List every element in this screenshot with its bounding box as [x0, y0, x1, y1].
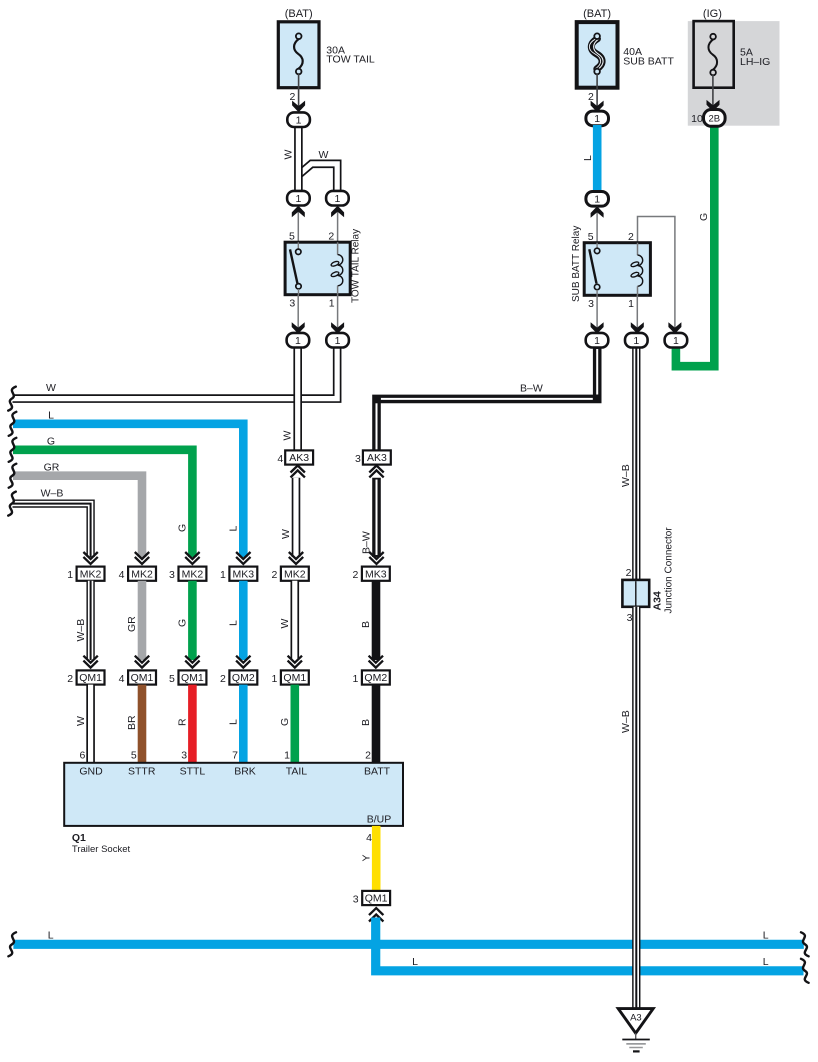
svg-text:LH–IG: LH–IG	[740, 56, 770, 68]
label L bus1 right	[763, 929, 769, 941]
svg-text:B–W: B–W	[361, 531, 373, 554]
pin 5	[588, 231, 594, 243]
label 30A TOW TAIL	[326, 44, 375, 65]
label GR	[126, 616, 138, 632]
connector 2B	[704, 110, 726, 127]
label Y	[360, 854, 372, 861]
pin 5	[289, 231, 295, 243]
connector 1 (SUB BATT relay top)	[586, 192, 609, 207]
arrow chevrons into MK2 pin4	[135, 552, 149, 564]
arrow chevrons into QM1 pin2	[83, 656, 97, 668]
connector MK2 pin2	[281, 567, 309, 581]
connector 1 (B-W out)	[586, 333, 609, 348]
pin 1	[329, 298, 335, 310]
break L bus1 left	[8, 932, 16, 956]
svg-text:L: L	[227, 526, 239, 532]
IG power panel	[688, 21, 780, 126]
svg-text:(BAT): (BAT)	[285, 8, 313, 20]
svg-text:1: 1	[673, 335, 679, 347]
pin 2	[67, 673, 73, 685]
svg-text:B/UP: B/UP	[367, 814, 392, 826]
label A34	[652, 591, 664, 610]
svg-text:W: W	[75, 716, 87, 726]
svg-text:TAIL: TAIL	[286, 766, 308, 778]
arrow chevrons into QM1 pin4	[135, 656, 149, 668]
break G	[9, 438, 17, 462]
connector QM1 pin5	[179, 670, 207, 684]
wire GR MK2 to QM1	[138, 581, 147, 660]
wire Y B/UP	[372, 826, 381, 891]
connector QM2 pin2	[229, 670, 257, 684]
svg-text:QM2: QM2	[364, 672, 387, 684]
label (IG)	[703, 8, 722, 20]
wire relay pin 2 up	[331, 206, 344, 243]
relay SUB BATT coil	[630, 243, 642, 296]
svg-text:QM2: QM2	[232, 672, 255, 684]
wire BR QM1 to STTR	[138, 685, 147, 763]
pin 2	[289, 91, 295, 103]
connector QM2 pin1	[362, 670, 390, 684]
svg-text:L: L	[228, 719, 240, 725]
connector Q1 Trailer Socket box	[64, 763, 403, 826]
svg-text:Junction Connector: Junction Connector	[664, 527, 675, 614]
label GR feeder	[44, 461, 60, 473]
svg-text:L: L	[412, 956, 418, 968]
svg-text:1: 1	[220, 569, 226, 581]
svg-text:5: 5	[588, 231, 594, 243]
break L	[9, 412, 17, 436]
wire L QM2 to BRK	[239, 685, 248, 763]
svg-text:L: L	[228, 620, 240, 626]
svg-text:QM1: QM1	[283, 672, 306, 684]
svg-text:W: W	[279, 619, 291, 629]
wire fuse TOW TAIL pin 2	[298, 74, 300, 110]
svg-text:W: W	[46, 382, 56, 394]
wire relay pin 1 down	[631, 295, 644, 334]
pin 3 Q1	[181, 749, 187, 761]
svg-text:Trailer Socket: Trailer Socket	[72, 844, 131, 855]
svg-text:1: 1	[633, 335, 639, 347]
svg-text:STTL: STTL	[180, 766, 206, 778]
relay TOW TAIL switch	[290, 242, 301, 295]
connector MK3 pin1	[229, 567, 257, 581]
arrow chevrons into MK2 pin2	[289, 552, 303, 564]
svg-text:2: 2	[271, 569, 277, 581]
label 40A SUB BATT	[623, 46, 674, 67]
wire W relay to AK3	[293, 347, 302, 455]
pin 7 Q1	[232, 749, 238, 761]
svg-text:GR: GR	[44, 461, 60, 473]
connector 1 (relay pin3 bottom)	[287, 333, 310, 348]
pin 4	[119, 673, 125, 685]
pin 2 Q1	[365, 749, 371, 761]
connector 1 (SUB BATT fuse out)	[586, 111, 609, 126]
wire W-B relay to A34	[632, 347, 640, 581]
connector 1 (relay pin5 top)	[287, 191, 310, 206]
wire relay pin 1 down	[331, 295, 344, 334]
label R	[177, 718, 189, 726]
break W-B	[8, 492, 16, 516]
label W-B	[75, 619, 87, 642]
svg-text:2: 2	[365, 749, 371, 761]
label W	[280, 529, 292, 539]
wire B MK3 to QM2	[372, 581, 381, 660]
pin 2	[588, 91, 594, 103]
connector QM1 pin2	[77, 670, 105, 684]
label BR	[126, 715, 138, 730]
svg-text:G: G	[698, 213, 710, 221]
svg-text:BRK: BRK	[234, 766, 256, 778]
svg-text:1: 1	[329, 298, 335, 310]
label W-B upper	[620, 464, 632, 487]
svg-text:1: 1	[594, 335, 600, 347]
svg-text:MK2: MK2	[80, 568, 102, 580]
svg-text:G: G	[177, 619, 189, 627]
svg-text:3: 3	[355, 453, 361, 465]
svg-text:7: 7	[232, 749, 238, 761]
break W	[8, 387, 16, 411]
svg-text:3: 3	[588, 298, 594, 310]
label W-B feeder	[41, 488, 64, 500]
connector 1 (W-B out)	[625, 333, 648, 348]
fuse 5A LH-IG	[694, 21, 734, 88]
wire W-B feeder	[13, 504, 91, 557]
pin 1	[352, 673, 358, 685]
label B/UP	[367, 814, 392, 826]
arrow chevrons into MK3 pin1	[236, 552, 250, 564]
wire relay pin 5 up	[292, 206, 305, 243]
connector AK3 pin3	[363, 450, 391, 464]
connector A34 junction	[622, 580, 649, 607]
wire G feeder	[13, 450, 192, 557]
svg-text:SUB BATT: SUB BATT	[623, 55, 674, 67]
svg-text:3: 3	[169, 569, 175, 581]
wire W MK2 to QM1	[290, 581, 299, 660]
svg-text:B–W: B–W	[520, 383, 543, 395]
label L bus2	[412, 956, 418, 968]
connector 1 (TOW TAIL fuse out)	[287, 112, 310, 127]
pin 1	[628, 298, 634, 310]
svg-text:3: 3	[627, 612, 633, 624]
svg-text:L: L	[582, 155, 594, 161]
svg-text:QM1: QM1	[131, 672, 154, 684]
svg-text:1: 1	[594, 113, 600, 125]
arrow into 2B	[707, 100, 720, 112]
label (BAT) right	[583, 8, 611, 20]
pin 2	[628, 231, 634, 243]
svg-text:L: L	[48, 929, 54, 941]
label W branch	[319, 149, 329, 161]
svg-text:2: 2	[628, 231, 634, 243]
svg-text:5: 5	[169, 673, 175, 685]
svg-text:5: 5	[131, 749, 137, 761]
label L	[228, 719, 240, 725]
svg-text:4: 4	[366, 832, 372, 844]
svg-text:SUB BATT Relay: SUB BATT Relay	[571, 226, 582, 302]
svg-text:W–B: W–B	[75, 619, 87, 642]
pin 2	[271, 569, 277, 581]
label W	[279, 619, 291, 629]
wire W branch	[298, 164, 337, 192]
svg-text:MK3: MK3	[365, 568, 387, 580]
pin 3	[169, 569, 175, 581]
svg-text:GR: GR	[126, 616, 138, 632]
svg-text:W: W	[283, 150, 295, 160]
wire B QM2 to BATT	[372, 685, 381, 763]
pin 4	[119, 569, 125, 581]
label Trailer Socket	[72, 844, 131, 855]
svg-text:B: B	[360, 719, 372, 726]
label 5A LH-IG	[740, 47, 770, 68]
pin 1	[220, 569, 226, 581]
svg-text:MK2: MK2	[182, 568, 204, 580]
svg-text:1: 1	[67, 569, 73, 581]
label L vertical	[227, 526, 239, 532]
pin 3	[289, 298, 295, 310]
connector QM1 pin4	[128, 670, 156, 684]
svg-text:L: L	[763, 956, 769, 968]
label L bus2 right	[763, 956, 769, 968]
relay TOW TAIL box	[285, 242, 350, 295]
arrow chevrons AK3 pin3	[369, 466, 383, 478]
wire L bus 2	[376, 918, 804, 971]
connector 1 (relay pin1 bottom)	[326, 333, 349, 348]
connector 1 (G in)	[665, 333, 688, 348]
label Q1	[72, 832, 86, 844]
label (BAT) left	[285, 8, 313, 20]
pin 1 Q1	[284, 749, 290, 761]
wire SUB BATT relay pin 5 up	[591, 206, 604, 243]
connector QM1 pin3 bottom	[362, 891, 390, 905]
svg-text:1: 1	[352, 673, 358, 685]
wire W fuse-to-relay	[294, 120, 303, 192]
svg-text:1: 1	[594, 194, 600, 206]
connector MK2 pin1	[77, 567, 105, 581]
label W	[282, 431, 294, 441]
svg-text:2: 2	[67, 673, 73, 685]
wire W-B MK2 to QM1	[86, 581, 94, 660]
connector QM1 pin1	[281, 670, 309, 684]
wire W horizontal feeder	[13, 347, 338, 399]
connector MK2 pin3	[179, 567, 207, 581]
connector 1 (relay pin2 top)	[326, 191, 349, 206]
wire B-W horizontal	[377, 347, 598, 452]
arrow chevrons into QM1 pin5	[185, 656, 199, 668]
svg-text:MK3: MK3	[233, 568, 255, 580]
svg-text:AK3: AK3	[289, 452, 309, 464]
break L bus2 right	[801, 959, 809, 983]
relay SUB BATT box	[584, 243, 650, 296]
svg-text:BR: BR	[126, 715, 138, 730]
svg-text:1: 1	[295, 193, 301, 205]
svg-text:10: 10	[691, 113, 703, 125]
arrow chevrons into QM2 pin1	[369, 656, 383, 668]
fuse 40A SUB BATT	[577, 22, 618, 88]
wire W QM1 to GND	[86, 685, 95, 763]
svg-text:STTR: STTR	[128, 766, 156, 778]
svg-text:QM1: QM1	[365, 893, 388, 905]
wire GR feeder	[13, 476, 142, 557]
arrow chevrons into MK2 pin1	[83, 552, 97, 564]
svg-text:3: 3	[181, 749, 187, 761]
Q1 pin names	[79, 766, 390, 778]
svg-text:2: 2	[220, 673, 226, 685]
wire L feeder	[13, 424, 243, 557]
arrow into connector	[292, 101, 305, 113]
label L	[582, 155, 594, 161]
svg-text:1: 1	[335, 335, 341, 347]
svg-text:W: W	[319, 149, 329, 161]
wire W-B A34 to ground	[632, 607, 640, 1009]
pin 4 B/UP	[366, 832, 372, 844]
svg-text:L: L	[763, 929, 769, 941]
pin 3	[588, 298, 594, 310]
pin 4	[277, 453, 283, 465]
label TOW TAIL Relay	[351, 229, 362, 303]
svg-text:GND: GND	[79, 766, 103, 778]
pin 2	[220, 673, 226, 685]
connector MK3 pin2	[362, 567, 390, 581]
break GR	[9, 464, 17, 488]
wire fuse SUB BATT pin 2	[596, 74, 598, 110]
pin 6 Q1	[79, 749, 85, 761]
svg-text:4: 4	[277, 453, 283, 465]
svg-text:1: 1	[271, 673, 277, 685]
svg-text:2: 2	[352, 569, 358, 581]
pin 10	[691, 113, 703, 125]
svg-text:(IG): (IG)	[703, 8, 722, 20]
label L bus1 left	[48, 929, 54, 941]
pin 2	[328, 231, 334, 243]
relay SUB BATT switch	[589, 243, 600, 296]
svg-text:G: G	[279, 718, 291, 726]
wire relay pin 2 to connector	[638, 217, 682, 334]
svg-text:5: 5	[289, 231, 295, 243]
label G	[698, 213, 710, 221]
svg-text:1: 1	[334, 193, 340, 205]
svg-text:G: G	[47, 435, 55, 447]
pin 5 Q1	[131, 749, 137, 761]
svg-text:W–B: W–B	[41, 488, 64, 500]
svg-text:3: 3	[353, 893, 359, 905]
arrow into connector	[591, 101, 604, 113]
ground earth symbol	[622, 1033, 650, 1051]
label W feeder	[46, 382, 56, 394]
svg-text:(BAT): (BAT)	[583, 8, 611, 20]
svg-text:2B: 2B	[708, 114, 720, 125]
svg-text:W: W	[282, 431, 294, 441]
break L bus1 right	[801, 932, 809, 956]
arrow chevrons QM1 bottom	[369, 908, 383, 921]
svg-text:L: L	[48, 409, 54, 421]
svg-text:MK2: MK2	[131, 568, 153, 580]
wire relay pin 3 down	[292, 295, 305, 334]
arrow chevrons AK3 pin4	[291, 466, 305, 478]
label B-W	[361, 531, 373, 554]
connector MK2 pin4	[128, 567, 156, 581]
relay TOW TAIL coil	[330, 242, 342, 295]
svg-text:A34: A34	[652, 591, 664, 610]
label B-W horizontal	[520, 383, 543, 395]
label W-B lower	[620, 710, 632, 733]
pin 5	[169, 673, 175, 685]
pin 1	[67, 569, 73, 581]
pin 2 A34	[626, 567, 632, 579]
svg-text:3: 3	[289, 298, 295, 310]
connector AK3 pin4	[285, 450, 313, 464]
svg-text:AK3: AK3	[367, 452, 387, 464]
wire L bus 1	[13, 940, 803, 949]
label G	[279, 718, 291, 726]
label SUB BATT Relay	[571, 226, 582, 302]
wire L fuse to relay	[593, 125, 602, 192]
svg-text:W–B: W–B	[620, 710, 632, 733]
svg-text:1: 1	[284, 749, 290, 761]
wire L MK3 to QM2	[239, 581, 248, 660]
label G	[177, 619, 189, 627]
svg-text:Q1: Q1	[72, 832, 86, 844]
fuse 30A TOW TAIL	[278, 22, 319, 88]
pin 3	[353, 893, 359, 905]
svg-text:B: B	[360, 621, 372, 628]
svg-text:1: 1	[295, 335, 301, 347]
wire B-W AK3 to MK3	[372, 478, 381, 557]
svg-text:QM1: QM1	[79, 672, 102, 684]
arrow chevrons into MK2 pin3	[185, 552, 199, 564]
pin 3	[355, 453, 361, 465]
svg-text:QM1: QM1	[181, 672, 204, 684]
label B	[360, 621, 372, 628]
pin 2	[352, 569, 358, 581]
svg-text:W–B: W–B	[620, 464, 632, 487]
label G vertical	[177, 524, 189, 532]
label L feeder	[48, 409, 54, 421]
wire W AK3 to MK2	[292, 478, 301, 557]
label G feeder	[47, 435, 55, 447]
wire R QM1 to STTL	[188, 685, 197, 763]
wire G MK2 to QM1	[188, 581, 197, 660]
arrow chevrons into QM2 pin2	[236, 656, 250, 668]
arrow chevrons into MK3 pin2	[369, 552, 383, 564]
svg-text:R: R	[177, 718, 189, 726]
label W	[75, 716, 87, 726]
label B	[360, 719, 372, 726]
svg-text:A3: A3	[630, 1013, 642, 1024]
wire G QM1 to TAIL	[290, 685, 299, 763]
svg-text:TOW TAIL Relay: TOW TAIL Relay	[351, 229, 362, 303]
wire fuse LH-IG out	[712, 75, 714, 109]
svg-text:W: W	[280, 529, 292, 539]
label L	[228, 620, 240, 626]
svg-text:TOW TAIL: TOW TAIL	[326, 54, 375, 66]
ground A3 triangle	[618, 1009, 653, 1034]
pin 1	[271, 673, 277, 685]
pin 3 A34	[627, 612, 633, 624]
label Junction Connector	[664, 527, 675, 614]
svg-text:2: 2	[328, 231, 334, 243]
svg-text:4: 4	[119, 569, 125, 581]
wire relay pin 3 down	[591, 295, 604, 334]
svg-text:2: 2	[626, 567, 632, 579]
svg-text:4: 4	[119, 673, 125, 685]
svg-text:G: G	[177, 524, 189, 532]
svg-text:1: 1	[628, 298, 634, 310]
svg-text:Y: Y	[360, 854, 372, 861]
svg-text:6: 6	[79, 749, 85, 761]
label W	[283, 150, 295, 160]
arrow chevrons into QM1 pin1	[288, 656, 302, 668]
svg-text:MK2: MK2	[284, 568, 306, 580]
